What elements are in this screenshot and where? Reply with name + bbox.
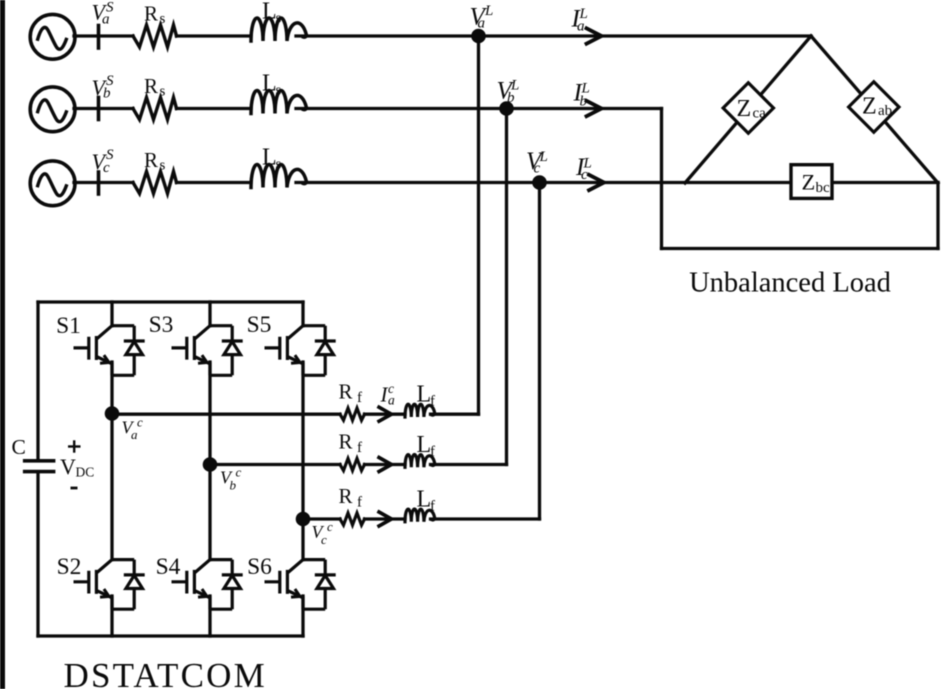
- svg-text:L: L: [262, 145, 277, 171]
- svg-text:Z: Z: [802, 169, 816, 194]
- svg-text:c: c: [534, 160, 541, 176]
- svg-text:a: a: [131, 427, 138, 442]
- svg-text:s: s: [276, 11, 282, 27]
- svg-text:s: s: [276, 83, 282, 99]
- svg-text:a: a: [102, 12, 110, 28]
- svg-text:s: s: [160, 11, 166, 27]
- svg-text:DSTATCOM: DSTATCOM: [64, 656, 267, 689]
- svg-text:Z: Z: [737, 96, 752, 122]
- svg-text:R: R: [144, 148, 158, 172]
- svg-text:S2: S2: [57, 554, 82, 580]
- svg-text:f: f: [357, 390, 362, 406]
- svg-text:ab: ab: [878, 103, 892, 119]
- svg-text:a: a: [577, 19, 585, 35]
- svg-text:S6: S6: [247, 554, 272, 580]
- svg-text:Z: Z: [862, 94, 877, 120]
- svg-text:s: s: [276, 157, 282, 173]
- svg-text:L: L: [262, 0, 277, 25]
- svg-text:f: f: [430, 444, 435, 460]
- svg-text:b: b: [103, 86, 111, 102]
- svg-text:f: f: [430, 499, 435, 515]
- svg-text:L: L: [262, 71, 277, 97]
- svg-text:f: f: [357, 440, 362, 456]
- svg-text:S3: S3: [149, 312, 174, 338]
- svg-text:s: s: [160, 157, 166, 173]
- svg-text:s: s: [160, 83, 166, 99]
- svg-text:R: R: [339, 484, 353, 508]
- svg-text:a: a: [388, 393, 395, 408]
- svg-text:R: R: [339, 380, 353, 404]
- svg-text:c: c: [321, 532, 327, 547]
- svg-text:L: L: [417, 432, 432, 458]
- svg-text:b: b: [580, 93, 588, 109]
- svg-text:f: f: [430, 394, 435, 410]
- svg-text:DC: DC: [76, 465, 95, 480]
- svg-text:S1: S1: [56, 313, 81, 339]
- svg-text:V: V: [60, 454, 76, 479]
- svg-text:bc: bc: [816, 180, 831, 196]
- svg-text:R: R: [339, 430, 353, 454]
- svg-text:a: a: [478, 16, 486, 32]
- svg-text:R: R: [144, 74, 158, 98]
- svg-text:L: L: [417, 487, 432, 513]
- svg-text:ca: ca: [753, 106, 767, 122]
- svg-text:b: b: [507, 90, 515, 106]
- svg-text:c: c: [581, 167, 588, 183]
- svg-text:L: L: [417, 382, 432, 408]
- svg-text:S4: S4: [156, 554, 181, 580]
- svg-text:L: L: [484, 3, 493, 19]
- svg-text:c: c: [137, 414, 143, 429]
- svg-text:Unbalanced Load: Unbalanced Load: [689, 268, 891, 299]
- svg-text:c: c: [236, 465, 242, 480]
- svg-text:b: b: [230, 477, 237, 492]
- svg-text:c: c: [103, 160, 110, 176]
- svg-text:f: f: [357, 495, 362, 511]
- svg-text:S5: S5: [247, 312, 272, 338]
- svg-text:C: C: [12, 435, 26, 459]
- svg-text:c: c: [327, 519, 333, 534]
- svg-text:R: R: [144, 2, 158, 26]
